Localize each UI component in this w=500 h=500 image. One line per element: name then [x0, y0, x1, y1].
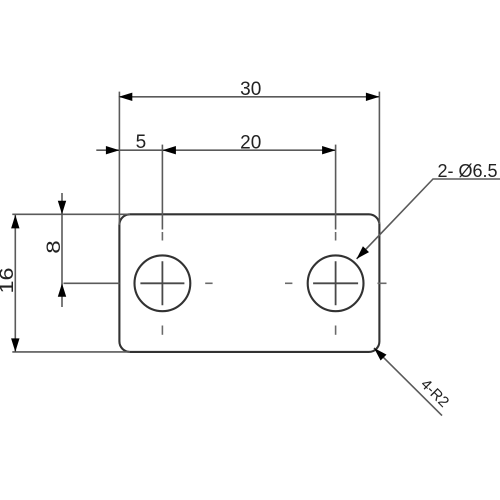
plate outline (rounded rectangle) — [119, 214, 379, 352]
centermark crosshair left hole — [140, 261, 184, 305]
centerline dash below right hole — [335, 326, 337, 335]
extension line bottom edge horizontal — [12, 351, 130, 353]
arrow 16 top — [11, 215, 19, 229]
dimension line 30 — [119, 96, 380, 98]
extension line right edge vertical — [378, 92, 380, 224]
dimension line 5 and 20 — [96, 149, 335, 151]
extension line top edge horizontal — [12, 213, 130, 215]
hole right (diameter 6.5) — [308, 255, 364, 311]
svg-text:30: 30 — [240, 79, 261, 100]
arrow hole callout — [357, 246, 369, 259]
arrow 5 left (outside, pointing right) — [106, 146, 120, 154]
svg-text:16: 16 — [0, 268, 18, 294]
dimension line 16 — [14, 215, 16, 352]
arrow corner radius callout — [374, 348, 387, 361]
arrow 8 bottom (outside, pointing up) — [58, 283, 66, 297]
arrow 16 bottom — [11, 338, 19, 352]
leader line for hole diameter callout — [357, 179, 500, 259]
hole left (diameter 6.5) — [135, 255, 191, 311]
leader line for corner radius callout — [374, 348, 442, 416]
svg-text:2- Ø6.5: 2- Ø6.5 — [438, 161, 498, 181]
centermark crosshair right hole — [313, 261, 358, 305]
svg-text:4-R2: 4-R2 — [417, 376, 452, 411]
extension line right hole center vertical — [335, 145, 337, 230]
arrow 30 left — [119, 93, 133, 101]
centerline dash above left hole — [161, 232, 163, 241]
centerline dash right of right hole crossing plate edge — [378, 282, 387, 284]
extension line left edge vertical — [118, 92, 120, 225]
dimension line 8 — [61, 193, 63, 307]
arrow 20 right (pointing right) — [322, 146, 336, 154]
svg-text:5: 5 — [136, 132, 147, 153]
svg-text:20: 20 — [240, 133, 261, 154]
arrow 8 top (outside, pointing down) — [58, 201, 66, 215]
centerline dash above right hole — [335, 232, 337, 241]
arrow 20 left (pointing left) — [162, 146, 176, 154]
centerline dash right of left hole — [205, 282, 212, 284]
centerline dash left of right hole — [285, 282, 292, 284]
extension line left hole center vertical — [161, 145, 163, 230]
arrow 30 right — [366, 93, 380, 101]
extension line hole centerline to left of plate — [64, 282, 120, 284]
svg-text:8: 8 — [44, 240, 65, 254]
centerline dash below left hole — [161, 326, 163, 335]
